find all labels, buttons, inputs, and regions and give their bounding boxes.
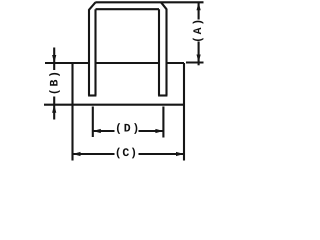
- svg-text:(D): (D): [115, 123, 141, 136]
- bail top-right chamfer: [161, 2, 167, 9]
- dim A bottom arrowhead (points down): [197, 55, 201, 63]
- dim C right arrowhead (points right): [176, 152, 184, 156]
- bail top outer edge + dim A top extension line: [95, 1, 203, 3]
- bail left leg outer edge: [88, 9, 90, 95]
- dim D right extension line: [162, 107, 164, 138]
- dim A top arrowhead (points up): [197, 2, 201, 10]
- dim B line upper segment: [53, 48, 55, 71]
- bail left leg inner edge: [94, 9, 96, 95]
- base right edge + dim C right extension line: [183, 63, 185, 161]
- bail right leg bottom: [158, 94, 167, 96]
- base bottom edge + dim B bottom extension line: [44, 104, 184, 106]
- bail top-left chamfer: [89, 2, 96, 10]
- svg-text:(C): (C): [115, 147, 138, 160]
- bail left leg bottom: [88, 94, 96, 96]
- dim C line right segment: [139, 153, 185, 155]
- base top edge middle segment: [96, 62, 160, 64]
- dim A line lower segment: [198, 42, 200, 66]
- base top edge right segment: [167, 62, 185, 64]
- dim A line upper segment: [198, 2, 200, 19]
- dim A bottom extension line: [186, 61, 204, 63]
- dim D line right segment: [139, 130, 164, 132]
- dim B top arrowhead (points down, outside): [52, 55, 56, 63]
- dim C line left segment: [73, 153, 115, 155]
- dim B line lower segment: [53, 97, 55, 120]
- dim C left arrowhead (points left): [73, 152, 81, 156]
- base left edge + dim C left extension line: [71, 63, 73, 161]
- base top edge left segment + dim B top extension line: [45, 62, 89, 64]
- bail right leg outer edge: [165, 9, 167, 96]
- bail top inner edge: [96, 8, 160, 10]
- svg-text:(B): (B): [49, 69, 62, 95]
- bail right leg inner edge: [158, 9, 160, 95]
- dim D left arrowhead (points left): [93, 129, 101, 133]
- dim D left extension line: [92, 107, 94, 138]
- dim B bottom arrowhead (points up, outside): [52, 105, 56, 113]
- dim D right arrowhead (points right): [155, 129, 163, 133]
- svg-text:(A): (A): [192, 17, 205, 43]
- dim D line left segment: [93, 130, 115, 132]
